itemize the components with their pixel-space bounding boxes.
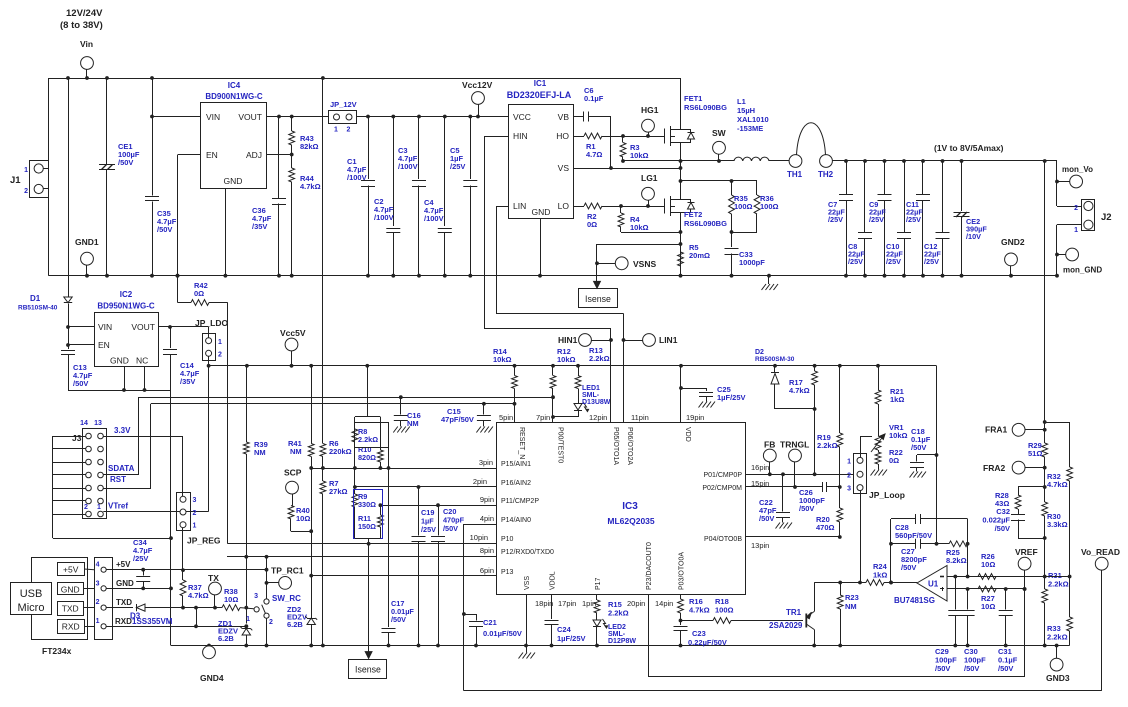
capacitor CE2	[961, 161, 963, 211]
wire J2 pin1 to mon_GND to rail	[1057, 224, 1082, 226]
svg-text:2.2kΩ: 2.2kΩ	[589, 354, 610, 363]
resistor R41	[311, 366, 313, 444]
wire R8 R10 top edge	[355, 416, 381, 418]
wire JP_LDO pin2 to Vcc5V rail and VTref riser	[208, 356, 210, 511]
svg-text:/35V: /35V	[180, 377, 195, 386]
svg-text:0Ω: 0Ω	[587, 220, 597, 229]
svg-text:VDDL: VDDL	[550, 571, 557, 590]
resistor R6	[322, 78, 324, 444]
resistor R43	[291, 117, 293, 132]
svg-text:3: 3	[193, 497, 197, 504]
svg-text:2pin: 2pin	[473, 477, 487, 486]
pin GND	[58, 583, 84, 595]
svg-text:12pin: 12pin	[589, 413, 607, 422]
wire Vo_READ riser and bottom return	[1101, 570, 1103, 691]
wire RXD tie riser	[196, 608, 198, 627]
svg-text:RB500SM-30: RB500SM-30	[755, 356, 795, 363]
svg-text:FRA1: FRA1	[985, 425, 1007, 435]
svg-text:D12P8W: D12P8W	[608, 638, 636, 645]
snubber row	[681, 180, 758, 182]
wire J2 pin2 stub	[1057, 206, 1082, 208]
svg-text:TRNGL: TRNGL	[780, 440, 809, 450]
pin TXD	[58, 602, 84, 616]
box blue around R9 R11	[354, 490, 383, 539]
svg-text:12V/24V: 12V/24V	[66, 8, 103, 19]
wire feedback node column	[967, 544, 969, 577]
svg-text:/50V: /50V	[799, 504, 814, 513]
svg-text:Vcc5V: Vcc5V	[280, 328, 306, 338]
resistor R7	[322, 468, 324, 481]
capacitor C13	[61, 350, 75, 352]
svg-text:470Ω: 470Ω	[816, 523, 835, 532]
wire HO gate wire	[602, 136, 664, 138]
mcu IC3 ML62Q2035	[497, 423, 746, 595]
svg-text:1: 1	[24, 167, 28, 174]
svg-text:10kΩ: 10kΩ	[630, 223, 649, 232]
svg-text:HG1: HG1	[641, 105, 659, 115]
resistor R11	[380, 505, 382, 515]
resistor R25	[949, 541, 968, 547]
capacitor C33	[731, 232, 733, 247]
svg-text:GND4: GND4	[200, 673, 224, 683]
wire GND rail	[49, 275, 1057, 277]
svg-text:82kΩ: 82kΩ	[300, 142, 319, 151]
pin RXD	[58, 620, 85, 634]
svg-text:10Ω: 10Ω	[296, 514, 310, 523]
wire J1 pin1 to Vin rail	[43, 168, 48, 170]
svg-text:VTref: VTref	[108, 502, 128, 511]
svg-text:20pin: 20pin	[627, 599, 645, 608]
svg-text:TR1: TR1	[786, 608, 802, 617]
module USB Micro	[32, 558, 88, 640]
svg-text:Micro: Micro	[18, 602, 45, 614]
wire P23 DAC column to VREF line	[648, 595, 650, 677]
svg-text:13pin: 13pin	[751, 541, 769, 550]
svg-text:FT234x: FT234x	[42, 646, 72, 656]
wire VSS column	[526, 595, 528, 646]
svg-text:2.2kΩ: 2.2kΩ	[358, 435, 378, 444]
svg-text:FET1: FET1	[684, 94, 702, 103]
svg-text:1: 1	[218, 339, 222, 346]
svg-text:P14/AIN0: P14/AIN0	[501, 517, 531, 524]
svg-text:NC: NC	[136, 356, 148, 366]
wire R42 riser to P10 row	[227, 303, 229, 544]
svg-text:1SS355VM: 1SS355VM	[132, 617, 173, 626]
svg-text:10Ω: 10Ω	[981, 602, 995, 611]
svg-text:J2: J2	[1101, 212, 1112, 223]
svg-text:47pF/50V: 47pF/50V	[441, 415, 474, 424]
resistor R19	[839, 366, 841, 433]
svg-text:10kΩ: 10kΩ	[493, 355, 512, 364]
wire VREF feedback line	[648, 676, 1025, 678]
wire VOUT row to JP_12V	[267, 116, 329, 118]
svg-text:USB: USB	[20, 588, 43, 600]
svg-text:/50V: /50V	[995, 524, 1010, 533]
potentiometer VR1	[875, 436, 881, 450]
svg-text:GND3: GND3	[1046, 673, 1070, 683]
wire SW node row	[623, 160, 734, 162]
svg-text:R23: R23	[845, 593, 859, 602]
diode D1	[68, 78, 70, 297]
svg-text:8.2kΩ: 8.2kΩ	[946, 556, 967, 565]
svg-text:GND2: GND2	[1001, 237, 1025, 247]
svg-text:HIN1: HIN1	[558, 335, 578, 345]
svg-text:/10V: /10V	[966, 232, 981, 241]
svg-text:1: 1	[96, 618, 100, 625]
svg-text:3: 3	[254, 593, 258, 600]
svg-text:VIN: VIN	[98, 322, 112, 332]
svg-text:2: 2	[193, 510, 197, 517]
net label Isense lower arrow	[368, 544, 370, 655]
svg-text:IC2: IC2	[120, 290, 133, 299]
svg-text:GND: GND	[224, 176, 243, 186]
svg-text:FB: FB	[764, 440, 775, 450]
svg-text:P17: P17	[595, 577, 602, 590]
svg-text:NM: NM	[290, 447, 302, 456]
capacitor C20	[438, 505, 440, 535]
wire P11/CMP2P 9pin row	[380, 505, 497, 507]
wire R4 bottom row	[621, 232, 681, 234]
svg-text:2SA2029: 2SA2029	[769, 621, 803, 630]
connector USB header	[95, 558, 113, 640]
wire feedback riser	[890, 519, 892, 583]
capacitor C32	[1011, 514, 1025, 516]
svg-text:3pin: 3pin	[479, 458, 493, 467]
resistor R10	[380, 417, 382, 450]
capacitor C31	[1005, 589, 1007, 610]
net label Isense upper	[596, 263, 598, 285]
svg-text:HO: HO	[556, 131, 569, 141]
wire J1 pin2 to GND rail	[43, 188, 48, 190]
svg-text:TXD: TXD	[116, 598, 132, 607]
terminal TH1	[789, 155, 802, 168]
svg-text:0.1µF: 0.1µF	[584, 94, 604, 103]
resistor R9	[354, 468, 356, 494]
svg-text:P03/OTO0A: P03/OTO0A	[679, 552, 686, 590]
svg-text:/100V: /100V	[374, 213, 394, 222]
resistor R4	[620, 206, 622, 213]
wire P16/AIN2 2pin row	[355, 486, 497, 488]
svg-text:820Ω: 820Ω	[358, 453, 376, 462]
svg-text:TH1: TH1	[787, 170, 803, 179]
svg-text:20mΩ: 20mΩ	[689, 251, 710, 260]
capacitor C19	[418, 487, 420, 536]
wire P04 13pin row	[746, 536, 840, 538]
svg-text:1µF/25V: 1µF/25V	[557, 634, 586, 643]
svg-text:JP_Loop: JP_Loop	[869, 490, 905, 500]
svg-text:C21: C21	[483, 618, 497, 627]
svg-text:NM: NM	[254, 448, 266, 457]
box around R8	[355, 423, 389, 448]
capacitor C2	[393, 117, 395, 227]
svg-text:LIN: LIN	[513, 201, 526, 211]
svg-text:C23: C23	[692, 629, 706, 638]
svg-text:SML-: SML-	[608, 631, 626, 638]
svg-text:RS6L090BG: RS6L090BG	[684, 103, 727, 112]
svg-text:15µH: 15µH	[737, 106, 755, 115]
svg-text:/100V: /100V	[424, 214, 444, 223]
svg-text:VSS: VSS	[524, 576, 531, 590]
svg-text:BD900N1WG-C: BD900N1WG-C	[205, 92, 263, 101]
svg-text:VDD: VDD	[684, 427, 691, 442]
svg-text:(8 to 38V): (8 to 38V)	[60, 20, 103, 31]
resistor R13	[578, 366, 580, 376]
wire C21 stub	[464, 614, 476, 616]
svg-text:/25V: /25V	[848, 257, 863, 266]
svg-text:Vcc12V: Vcc12V	[462, 80, 493, 90]
svg-text:2.2kΩ: 2.2kΩ	[1048, 580, 1069, 589]
resistor R28	[1015, 495, 1021, 509]
wire P00 7pin bus row	[138, 397, 553, 399]
svg-text:RST: RST	[110, 475, 126, 484]
svg-text:RB510SM-40: RB510SM-40	[18, 305, 58, 312]
svg-text:18pin: 18pin	[535, 599, 553, 608]
svg-text:P16/AIN2: P16/AIN2	[501, 480, 531, 487]
resistor R20	[839, 487, 841, 508]
resistor R24	[866, 580, 884, 586]
svg-text:C24: C24	[557, 625, 572, 634]
svg-text:560pF/50V: 560pF/50V	[895, 531, 932, 540]
svg-text:/50V: /50V	[157, 225, 172, 234]
capacitor C29	[955, 577, 957, 610]
wire ADJ row	[267, 154, 292, 156]
resistor R32	[1067, 467, 1073, 481]
svg-text:16pin: 16pin	[751, 463, 769, 472]
wire snubber bottom row	[732, 232, 758, 234]
wire P13 6pin row	[311, 575, 497, 577]
svg-text:4.7kΩ: 4.7kΩ	[689, 606, 710, 615]
svg-text:/50V: /50V	[901, 563, 916, 572]
capacitor C9	[884, 161, 886, 194]
wire left ground bus riser	[170, 390, 172, 646]
svg-text:0.22µF/50V: 0.22µF/50V	[688, 638, 727, 647]
ground symbol on GND rail	[768, 276, 770, 284]
resistor R44	[291, 155, 293, 169]
svg-text:2: 2	[96, 599, 100, 606]
resistor R15	[596, 595, 598, 600]
svg-text:10Ω: 10Ω	[224, 595, 238, 604]
wire P12 8pin row	[227, 556, 497, 558]
svg-text:ML62Q2035: ML62Q2035	[607, 516, 655, 526]
svg-text:1: 1	[334, 127, 338, 134]
svg-text:14pin: 14pin	[655, 599, 673, 608]
svg-text:/50V: /50V	[443, 524, 458, 533]
capacitor C18	[917, 454, 937, 456]
svg-text:14: 14	[80, 420, 88, 427]
wire LED1 to 7pin column	[553, 416, 578, 418]
wire P02 15pin row	[746, 486, 823, 488]
svg-text:10Ω: 10Ω	[981, 560, 995, 569]
wire VREF riser	[1024, 570, 1026, 677]
svg-text:P12/RXD0/TXD0: P12/RXD0/TXD0	[501, 549, 554, 556]
wire non-inverting input row	[947, 588, 1025, 590]
op-amp U1 BU7481SG	[917, 566, 947, 602]
svg-text:Isense: Isense	[585, 294, 611, 304]
wire top Vin rail	[49, 78, 681, 80]
svg-text:9pin: 9pin	[480, 495, 494, 504]
svg-text:6.2B: 6.2B	[287, 620, 303, 629]
svg-text:BD950N1WG-C: BD950N1WG-C	[97, 302, 155, 311]
svg-text:10kΩ: 10kΩ	[557, 355, 576, 364]
wire inverting row extension to R33	[1045, 576, 1070, 578]
svg-text:SW_RC: SW_RC	[272, 594, 301, 603]
wire mon_Vo branch	[1045, 160, 1057, 162]
svg-text:+5V: +5V	[116, 560, 131, 569]
wire P10 10pin row	[228, 543, 497, 545]
wire SW_RC common col	[266, 557, 268, 599]
LED LED2	[593, 620, 601, 627]
resistor R31	[1044, 577, 1046, 590]
capacitor C36	[278, 117, 280, 199]
capacitor C22	[782, 474, 784, 511]
svg-text:P05/OTO1A: P05/OTO1A	[612, 427, 619, 465]
capacitor C3	[418, 117, 420, 180]
connector J1	[30, 161, 49, 198]
svg-text:BD2320EFJ-LA: BD2320EFJ-LA	[507, 90, 572, 100]
svg-text:/50V: /50V	[964, 664, 979, 673]
svg-text:220kΩ: 220kΩ	[329, 447, 352, 456]
svg-text:HIN: HIN	[513, 131, 528, 141]
svg-text:330Ω: 330Ω	[358, 500, 376, 509]
resistor R8	[354, 417, 356, 429]
svg-text:GND: GND	[116, 579, 134, 588]
wire VSNS tap	[597, 244, 681, 246]
svg-text:J3: J3	[72, 433, 82, 443]
svg-text:VOUT: VOUT	[238, 112, 262, 122]
svg-text:/25V: /25V	[924, 257, 939, 266]
svg-text:10kΩ: 10kΩ	[889, 431, 908, 440]
wire VDD 19pin column	[680, 366, 682, 423]
wire Vcc5V rail	[209, 365, 937, 367]
svg-text:5pin: 5pin	[499, 413, 513, 422]
resistor R22	[878, 450, 880, 452]
wire RESET 5pin bus row	[151, 403, 515, 405]
wire FRA branch top jog	[1043, 420, 1047, 424]
svg-text:/25V: /25V	[421, 525, 436, 534]
wire VB bootstrap riser	[610, 117, 612, 169]
wire VS row	[573, 168, 680, 170]
svg-text:P10: P10	[501, 536, 514, 543]
svg-text:2: 2	[847, 473, 851, 480]
svg-text:TH2: TH2	[818, 170, 834, 179]
capacitor C27	[891, 543, 916, 545]
capacitor C24	[551, 595, 553, 619]
svg-text:P01/CMP0P: P01/CMP0P	[703, 472, 742, 479]
capacitor C10	[904, 161, 906, 232]
svg-text:3.3kΩ: 3.3kΩ	[1047, 520, 1068, 529]
svg-text:/100V: /100V	[398, 162, 418, 171]
connector J2	[1082, 200, 1095, 231]
svg-text:1kΩ: 1kΩ	[873, 571, 887, 580]
capacitor C26	[822, 482, 824, 492]
svg-text:19pin: 19pin	[686, 413, 704, 422]
resistor R3	[622, 136, 624, 143]
resistor R33	[1069, 577, 1071, 618]
wire emitter row	[814, 582, 866, 584]
resistor R1	[573, 136, 584, 138]
wire C32 bottom row	[1018, 538, 1045, 540]
svg-text:2: 2	[24, 188, 28, 195]
svg-text:SDATA: SDATA	[108, 464, 135, 473]
svg-text:/50V: /50V	[998, 664, 1013, 673]
capacitor C4	[444, 117, 446, 227]
svg-text:1: 1	[246, 616, 250, 623]
svg-text:2: 2	[1074, 205, 1078, 212]
wire SCP net column	[311, 468, 313, 618]
svg-text:FRA2: FRA2	[983, 463, 1005, 473]
svg-text:VSNS: VSNS	[633, 259, 656, 269]
svg-text:NM: NM	[845, 602, 857, 611]
wire J3 left pins bus	[53, 436, 86, 438]
svg-text:150Ω: 150Ω	[358, 522, 376, 531]
svg-text:P15/AIN1: P15/AIN1	[501, 461, 531, 468]
svg-text:4.7kΩ: 4.7kΩ	[1047, 480, 1068, 489]
wire VIN row	[152, 116, 201, 118]
svg-text:2.2kΩ: 2.2kΩ	[608, 609, 629, 618]
svg-text:13: 13	[94, 420, 102, 427]
inductor L1	[734, 157, 769, 161]
svg-text:1: 1	[1074, 227, 1078, 234]
svg-text:IC3: IC3	[622, 501, 638, 512]
wire R28 C32 branch	[1044, 468, 1046, 487]
svg-text:LED1: LED1	[582, 385, 600, 392]
svg-text:4.7Ω: 4.7Ω	[586, 150, 602, 159]
svg-text:/25V: /25V	[133, 554, 148, 563]
wire C17 tap column	[388, 448, 390, 627]
svg-text:10pin: 10pin	[470, 533, 488, 542]
svg-text:TX: TX	[208, 573, 219, 583]
svg-text:SW: SW	[712, 128, 727, 138]
svg-text:SML-: SML-	[582, 392, 600, 399]
svg-text:/50V: /50V	[391, 615, 406, 624]
svg-text:ADJ: ADJ	[246, 150, 262, 160]
wire P14 4pin row and Vo_READ riser	[464, 524, 497, 526]
svg-text:/25V: /25V	[450, 162, 465, 171]
svg-text:27kΩ: 27kΩ	[329, 487, 348, 496]
resistor R35	[731, 181, 733, 195]
svg-text:1: 1	[847, 459, 851, 466]
resistor R16	[680, 595, 682, 599]
terminal TH2	[820, 155, 833, 168]
resistor R2	[573, 206, 584, 208]
svg-text:100Ω: 100Ω	[760, 202, 779, 211]
terminal VSNS	[615, 257, 628, 270]
svg-text:6.2B: 6.2B	[218, 634, 234, 643]
svg-text:1: 1	[97, 504, 101, 511]
svg-text:/25V: /25V	[886, 257, 901, 266]
svg-text:100Ω: 100Ω	[715, 606, 734, 615]
wire IC1 GND to rail	[540, 219, 542, 276]
resistor R40	[292, 494, 294, 506]
svg-text:P11/CMP2P: P11/CMP2P	[501, 498, 539, 505]
svg-text:1kΩ: 1kΩ	[890, 395, 904, 404]
wire VOUT row	[159, 326, 209, 328]
svg-text:/50V: /50V	[911, 443, 926, 452]
resistor R30	[1044, 487, 1046, 502]
capacitor C8	[864, 161, 866, 232]
transistor FET1	[664, 129, 666, 144]
wire EN	[178, 154, 202, 156]
wire HIN routing	[484, 136, 508, 138]
svg-text:P02/CMP0M: P02/CMP0M	[702, 485, 742, 492]
svg-text:U1: U1	[928, 580, 939, 589]
svg-text:8pin: 8pin	[480, 546, 494, 555]
svg-text:Vo_READ: Vo_READ	[1081, 547, 1120, 557]
svg-text:NM: NM	[407, 419, 419, 428]
svg-text:P04/OTO0B: P04/OTO0B	[704, 536, 742, 543]
resistor R26 on inverting row	[978, 574, 996, 580]
pin +5V	[58, 563, 85, 576]
